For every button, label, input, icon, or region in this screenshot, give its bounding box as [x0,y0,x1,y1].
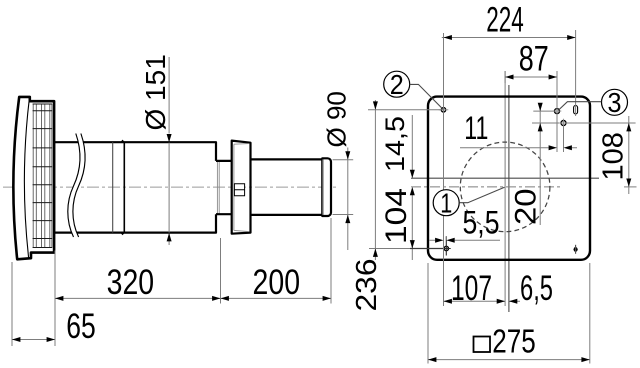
tube break (wavy lines) [68,134,85,238]
grille rungs [33,104,53,248]
dimension 5,5 [430,105,501,306]
interior cover inner curve [24,99,29,258]
screw hole top-left (2) [439,106,449,115]
svg-text:2: 2 [390,69,404,100]
dimension 20 [510,103,560,225]
svg-text:14,5: 14,5 [380,116,410,172]
svg-text:87: 87 [519,40,549,79]
dimension 87 [505,40,557,152]
dimension 320 / 200 extension lines [12,218,331,346]
dimension square 275 [428,263,590,364]
screw hole B right [559,119,568,128]
dimension 11 [460,110,577,152]
balloon 2 [384,69,410,100]
duct hole vertical centerline [504,71,506,306]
neck section [216,161,232,214]
interior cover outer shell [13,97,54,259]
sleeve inner wall lines [217,161,219,214]
plate horizontal centerline [411,177,599,179]
duct end bead [322,158,331,216]
screw hole bottom-left [442,237,451,256]
svg-text:65: 65 [66,307,96,346]
svg-text:200: 200 [253,263,301,302]
wall plate [428,97,590,260]
svg-text:104: 104 [380,188,413,244]
collar flange [232,141,251,234]
dimension 65 [12,307,96,346]
dimension Ø90 [322,91,354,250]
dimension 104 [369,187,444,260]
dimension 107 [444,269,506,308]
svg-text:3: 3 [608,87,622,118]
svg-text:Ø 151: Ø 151 [140,54,171,130]
balloon 1 leader [459,187,504,202]
centerline axis [3,186,339,188]
slot hole top-right [574,106,578,114]
duct tube Ø90 [251,159,323,215]
collar clip detail [234,184,244,196]
svg-text:1: 1 [440,188,452,219]
dimension Ø151 [140,54,172,245]
joint lines in sleeve [113,140,125,236]
dimension 224 [442,0,576,116]
dimension 6,5 [509,269,553,308]
duct hole (dashed circle) [460,142,550,232]
svg-text:107: 107 [451,269,492,308]
wall sleeve tube Ø151 [54,142,216,232]
condensate mark bottom-right [573,245,577,254]
dimension 236 [351,100,442,312]
dimension 108 [567,116,636,194]
svg-text:20: 20 [510,189,543,226]
svg-text:5,5: 5,5 [463,205,500,241]
svg-text:236: 236 [351,259,383,312]
balloon 2 leader [410,84,443,109]
dimension 200 [221,263,332,302]
balloon 1 [433,188,459,219]
balloon 3 leader [558,102,601,111]
duct hole horizontal centerline [411,186,637,188]
svg-text:Ø 90: Ø 90 [322,91,352,147]
screw hole A top-right (3) [553,107,562,116]
svg-text:6,5: 6,5 [520,269,553,308]
svg-text:11: 11 [464,110,488,146]
dimension 14,5 [380,115,415,178]
grille rails [33,104,52,248]
plate vertical centerline [508,85,510,312]
dimension 320 [55,263,221,302]
svg-text:224: 224 [486,0,524,39]
svg-text:320: 320 [107,263,155,302]
svg-text:275: 275 [492,322,536,359]
svg-text:108: 108 [598,132,630,180]
balloon 3 [602,87,628,118]
